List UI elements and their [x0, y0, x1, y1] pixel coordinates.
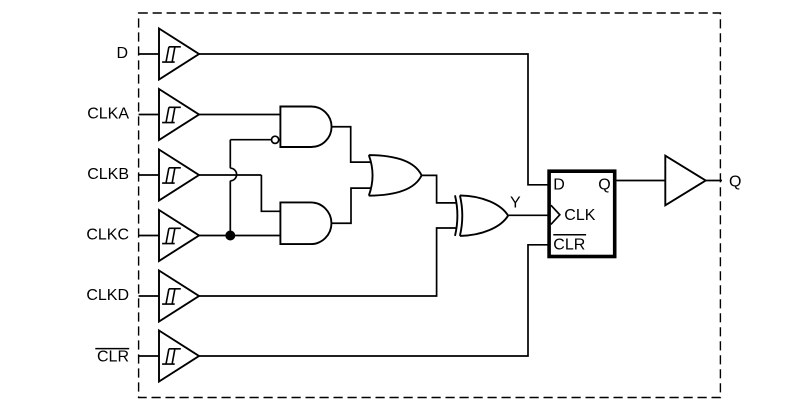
svg-text:CLKC: CLKC [86, 227, 129, 244]
inversion bubble on AND1 lower input [272, 136, 279, 143]
wire AND2 output to OR1 bottom input [332, 188, 372, 223]
wire net CLKD: buffer to XOR1 bottom input [199, 228, 456, 296]
buffer U7 (output driver) [665, 156, 705, 206]
buffer U1 (Schmitt trigger) for D [159, 29, 199, 80]
wire net CLR: buffer to flip-flop CLR pin [199, 245, 549, 356]
wire CLKC branch to AND1 inverted input (with hop over CLKB) [230, 140, 271, 236]
svg-text:Q: Q [729, 174, 741, 191]
wire D input stub [139, 53, 159, 55]
svg-text:D: D [116, 45, 128, 62]
svg-text:CLKB: CLKB [87, 166, 129, 183]
wire node Y: XOR1 output to flip-flop CLK pin [508, 214, 549, 216]
boundary dashed box [139, 13, 721, 398]
flip-flop CLK edge-trigger mark [551, 205, 560, 224]
wire CLKB input stub [139, 174, 159, 176]
wire hop over CLKB [230, 168, 236, 181]
wire OR1 output to XOR1 top input [422, 175, 457, 203]
wire CLR input stub [139, 355, 159, 357]
svg-text:CLR: CLR [97, 348, 129, 365]
wire net CLKC: buffer to AND2 bottom input [199, 235, 280, 237]
wire net CLKB: buffer to AND2 top input [199, 175, 280, 211]
wire AND1 output to OR1 top input [332, 127, 371, 162]
buffer U3 (Schmitt trigger) for CLKB [159, 150, 199, 201]
junction on CLKC net [225, 231, 235, 241]
svg-text:CLK: CLK [564, 207, 595, 224]
svg-text:CLKD: CLKD [86, 287, 129, 304]
buffer U5 (Schmitt trigger) for CLKD [159, 271, 199, 322]
wire CLKC input stub [139, 235, 159, 237]
svg-text:CLR: CLR [553, 237, 585, 254]
wire output buffer to boundary [706, 180, 722, 182]
wire flip-flop Q output to output buffer [617, 180, 666, 182]
and-gate AND1 (top, inverted B input) [280, 107, 331, 148]
wire CLKA input stub [139, 114, 159, 116]
xor-gate XOR1 [455, 195, 457, 236]
or-gate OR1 [369, 155, 422, 196]
svg-text:CLKA: CLKA [87, 106, 129, 123]
wire net D: buffer to flip-flop D pin [199, 54, 549, 185]
wire net CLKA: buffer to AND1 top input [199, 114, 280, 116]
buffer U6 (Schmitt trigger) for CLR [159, 331, 199, 382]
svg-text:Q: Q [598, 177, 610, 194]
buffer U4 (Schmitt trigger) for CLKC [159, 210, 199, 261]
wire CLKD input stub [139, 295, 159, 297]
and-gate AND2 (bottom) [280, 202, 331, 244]
buffer U2 (Schmitt trigger) for CLKA [159, 89, 199, 140]
flip-flop FF1 box [549, 171, 615, 256]
svg-text:D: D [553, 177, 565, 194]
svg-text:Y: Y [510, 195, 521, 212]
